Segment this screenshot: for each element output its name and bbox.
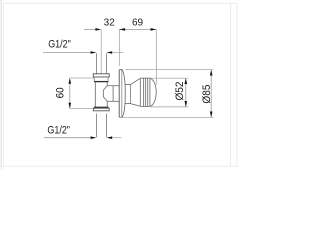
svg-text:Ø52: Ø52 (174, 81, 186, 100)
svg-text:32: 32 (104, 17, 115, 28)
svg-text:69: 69 (132, 17, 143, 28)
svg-text:G1/2": G1/2" (48, 39, 71, 51)
svg-text:Ø85: Ø85 (201, 84, 213, 103)
svg-text:60: 60 (55, 87, 67, 98)
svg-text:G1/2": G1/2" (47, 125, 70, 137)
